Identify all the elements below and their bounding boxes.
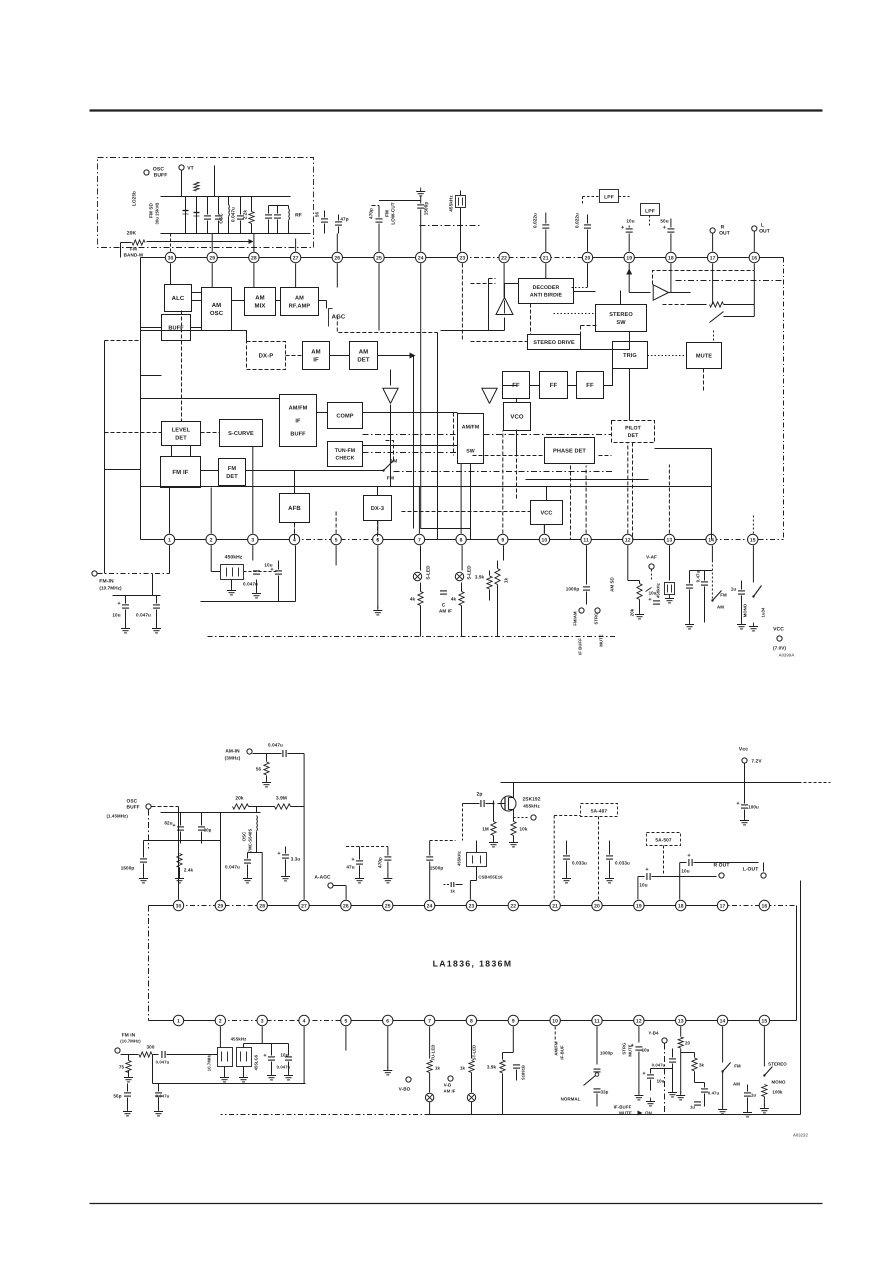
wire mesh h agc [337,316,437,333]
wire pin12 up [627,443,629,534]
svg-text:1500p: 1500p [430,866,444,871]
wire band-w [121,242,132,244]
svg-text:LPF: LPF [604,195,614,201]
wire mesh v4 [390,405,392,487]
wire phasedet left [471,455,543,457]
block PILOT DET [612,421,655,443]
pin 7 [414,534,424,544]
wire stereo sw dotted [554,313,596,315]
resistor 75 [126,1061,131,1073]
ceramic resonator 450kHz [669,546,671,581]
svg-text:17: 17 [710,255,716,261]
wire pin13 up [668,465,670,534]
wire trig down [629,369,631,421]
wire left bus to DXP [141,331,247,342]
svg-text:+: + [736,801,739,807]
svg-text:STEREO: STEREO [609,312,633,318]
wire sw to buff [384,441,394,461]
wire s-curve link [201,432,220,434]
wire pin6 stub [377,546,379,609]
svg-text:LO25b: LO25b [132,191,137,206]
wire osc rail2 [161,233,311,235]
svg-text:455kHz: 455kHz [231,1037,247,1042]
ground [256,590,258,594]
wire pin5 stub [345,1027,347,1051]
svg-text:7.2V: 7.2V [751,759,762,765]
svg-text:+: + [172,823,175,829]
svg-text:0.047u: 0.047u [225,865,240,870]
wire fm-in [98,573,170,575]
svg-text:1k: 1k [435,1066,441,1071]
wire pin10 up [543,525,545,534]
resistor 56 [264,762,269,775]
wire pin29 up [211,234,213,252]
svg-text:6: 6 [386,1018,389,1024]
block AM/FM SW [458,414,484,464]
svg-text:A03232: A03232 [793,1133,809,1138]
ground [672,1089,674,1093]
wire mesh v3 [437,333,439,540]
capacitor pair RF [268,206,270,214]
flip-flop FF1 [503,372,530,399]
svg-text:16: 16 [762,903,768,909]
svg-text:AFB: AFB [288,505,301,512]
wire pin3 up [252,447,254,534]
wire mute sw [713,331,715,343]
wire AMDET out [378,355,414,357]
wire pin21 dash [553,816,555,900]
wire pin11 up [585,466,587,534]
capacitor 56p [321,218,328,220]
svg-text:+: + [663,225,666,231]
svg-text:2p: 2p [476,792,482,798]
block AM RF AMP [281,288,319,316]
pin 12 [634,1015,644,1025]
svg-text:47p: 47p [340,217,348,222]
wire left col [104,341,106,574]
wire filters [206,1054,218,1056]
svg-text:24: 24 [427,903,433,909]
svg-text:450kHz: 450kHz [225,555,243,561]
svg-text:V-B: V-B [444,1083,452,1088]
wire fil out [262,1043,288,1045]
coil OSC [228,197,230,205]
svg-text:29: 29 [217,903,223,909]
svg-text:20K: 20K [127,231,137,237]
switch NORMAL [595,1073,599,1077]
ground [513,839,515,843]
wire coil bottom [248,852,263,854]
svg-text:8: 8 [460,537,463,543]
wire rail y812 [161,812,261,814]
svg-text:23: 23 [460,255,466,261]
wire stereo sw up [620,291,622,305]
pin 2 [215,1015,225,1025]
svg-text:25: 25 [385,903,391,909]
svg-text:11: 11 [594,1018,600,1024]
wire comp to buff [317,412,328,414]
wire mesh v amdet [390,370,392,386]
svg-text:2.2k: 2.2k [243,209,248,219]
svg-text:STRG: STRG [594,612,599,624]
wire v-af [651,570,653,581]
svg-text:IF: IF [313,357,319,364]
wire bottom bus dash [208,636,617,638]
amp triangle AM det [383,388,398,403]
svg-text:15: 15 [750,537,756,543]
svg-text:0.022u: 0.022u [533,213,538,228]
wire comp right ext [390,429,392,442]
wire pin19 to amp [628,264,630,293]
block AM/FM IF BUFF [280,395,317,447]
svg-text:10.7MHz: 10.7MHz [207,1054,212,1071]
pin 3 [248,534,258,544]
svg-text:DX-3: DX-3 [371,506,384,512]
svg-text:DET: DET [357,357,370,364]
wire stereo drive left [471,341,528,343]
svg-text:+: + [270,567,273,573]
potentiometer 20kB [627,546,629,581]
block VCO [504,403,531,431]
svg-text:FM: FM [385,210,390,217]
svg-text:4k: 4k [410,597,416,602]
ground [128,1074,130,1078]
svg-text:10k: 10k [520,827,528,832]
svg-text:IF BUFF: IF BUFF [578,638,583,655]
svg-text:1500p: 1500p [424,202,429,216]
wire phase det down [570,466,572,540]
svg-text:TU-LED: TU-LED [431,1045,436,1061]
svg-text:20k: 20k [235,796,244,802]
capacitor trim [207,197,209,215]
svg-text:7: 7 [428,1018,431,1024]
svg-text:0.047u: 0.047u [268,743,283,748]
pin 5 [331,534,341,544]
pin 24 [416,252,426,262]
wire AMMIX-RFAMP [276,300,281,302]
svg-text:455LG5: 455LG5 [254,1054,259,1070]
svg-text:ANTI BIRDIE: ANTI BIRDIE [530,293,563,299]
svg-text:+: + [631,1043,634,1049]
wire bus 479 [526,479,649,481]
capacitor 0.47u [711,546,713,561]
coil RF [288,206,290,209]
pin 14 [717,1015,727,1025]
pin 4 [299,1015,309,1025]
resistor 10k [511,822,516,836]
LED S-LED 2 [461,546,463,571]
terminal V-B AM IF [448,1076,453,1081]
svg-text:FM: FM [130,247,137,252]
svg-text:50u: 50u [660,219,668,224]
svg-text:FM/AM: FM/AM [573,611,578,626]
svg-text:R OUT: R OUT [713,863,729,869]
svg-text:+: + [645,867,648,873]
svg-text:AM/FM: AM/FM [462,424,480,430]
capacitor [513,1064,520,1066]
svg-text:IF-BUF: IF-BUF [560,1045,565,1060]
svg-text:470p: 470p [369,208,374,219]
svg-text:BUFF: BUFF [154,173,168,179]
svg-text:FM: FM [228,466,237,472]
svg-text:455kHz: 455kHz [457,851,462,866]
pin 6 [373,534,383,544]
svg-text:DET: DET [628,433,639,439]
wire trig-mute [648,355,687,357]
svg-text:26: 26 [343,903,349,909]
svg-text:S-CURVE: S-CURVE [228,431,254,437]
svg-text:5A-407: 5A-407 [591,809,608,815]
svg-text:L-OUT: L-OUT [743,867,759,873]
svg-text:(1.45MHz): (1.45MHz) [107,814,129,819]
svg-text:A-AGC: A-AGC [314,875,331,881]
wire pilotamp up [504,284,506,298]
svg-text:19: 19 [626,255,632,261]
svg-text:S-LED: S-LED [467,565,472,580]
wire pin27 to AM RF AMP [295,264,297,288]
svg-text:PHASE DET: PHASE DET [553,448,586,454]
pin 10 [539,534,549,544]
svg-text:AM: AM [295,296,304,302]
svg-text:AM/FM: AM/FM [554,1041,559,1056]
svg-text:6: 6 [376,537,379,543]
svg-text:AM: AM [359,349,369,356]
svg-text:13: 13 [667,537,673,543]
block TRIG [613,342,648,369]
ground [271,1072,273,1076]
terminal VT [179,165,184,170]
svg-text:1000p: 1000p [566,587,580,592]
svg-text:OSC: OSC [219,213,224,224]
ground [387,1067,389,1071]
wire DXP-AMIF [286,355,303,357]
svg-text:+: + [117,601,120,607]
svg-text:10u: 10u [639,883,647,888]
svg-text:+: + [687,853,690,859]
capacitor [686,584,693,586]
svg-text:MUTE: MUTE [599,634,604,646]
wire mesh v2 [413,356,415,529]
svg-text:100k: 100k [772,1090,783,1095]
wire 1500p [420,196,422,204]
svg-text:FF: FF [586,382,594,389]
svg-text:25: 25 [376,255,382,261]
svg-text:(3MHz): (3MHz) [225,756,241,761]
svg-text:10u: 10u [681,869,689,874]
svg-text:SW: SW [616,320,626,326]
pin 23 [457,252,467,262]
pin 19 [624,252,634,262]
varactor diode pair [185,197,187,234]
capacitor 0.047u [161,1051,163,1058]
pin 15 [759,1015,769,1025]
wire pin6 gnd [387,1027,389,1069]
svg-text:470p: 470p [378,857,383,868]
svg-text:V-BO: V-BO [399,1087,411,1092]
terminal L OUT [752,226,757,231]
wire h bus 1083 [153,1083,306,1085]
switch MONO [752,546,754,583]
svg-text:0.47u: 0.47u [708,1091,720,1096]
ground [493,839,495,843]
wire AMOSC-AMMIX [232,300,245,302]
pin 29 [207,252,217,262]
svg-text:450kHz: 450kHz [656,583,661,598]
svg-text:0.047u: 0.047u [243,582,258,587]
svg-text:1u: 1u [731,587,737,592]
resistor 1k pin9 [503,546,505,561]
pin 30 [165,252,175,262]
wire mesh h2 [141,486,712,488]
svg-text:4: 4 [303,1018,306,1024]
ground [609,875,611,879]
svg-text:AM IF: AM IF [439,609,452,614]
ground [744,817,746,821]
svg-text:455kHz: 455kHz [449,195,454,212]
wire vt down [181,171,183,197]
ground [224,1074,226,1078]
wire pin15 up [752,515,754,534]
svg-text:IF: IF [295,418,301,424]
svg-text:1k: 1k [504,578,509,584]
pin 4 [289,534,299,544]
resistor 20 [678,1037,683,1048]
wire drive-trig [581,342,630,350]
flip-flop FF2 [540,372,568,399]
svg-text:AM: AM [311,349,321,356]
wire top t-junction [379,200,421,202]
wire dx3 down [377,521,379,540]
svg-text:+: + [621,225,624,231]
svg-text:FM SD: FM SD [149,203,154,218]
block COMP [328,403,363,429]
svg-text:S-LED: S-LED [426,565,431,580]
ground [247,875,249,879]
wire mute bottom [703,369,705,393]
wire pin25 down [378,264,380,331]
svg-text:5: 5 [335,537,338,543]
amp triangle pilot [496,298,513,315]
block ALC [165,285,192,312]
resistor 3k [680,1027,682,1037]
svg-text:27: 27 [301,903,307,909]
wire vco-ff [503,385,517,387]
wire left col top [105,340,141,342]
svg-text:10u: 10u [112,613,120,618]
resistor feedback [710,302,724,307]
svg-text:AM: AM [255,295,265,302]
ground [722,1106,724,1110]
svg-text:1k: 1k [450,889,455,894]
wire ff chain2 [568,385,577,387]
ground [387,875,389,879]
svg-text:BUFF: BUFF [290,431,306,437]
svg-text:+: + [263,1053,266,1059]
svg-text:10u: 10u [642,1048,650,1053]
wire decoder down [530,304,532,335]
wire vcc down [543,525,545,534]
svg-text:LEVEL: LEVEL [172,428,191,434]
svg-text:OUT: OUT [719,231,730,237]
pin 30 [173,900,183,910]
svg-text:A0399A: A0399A [779,653,795,658]
wire level det left [105,432,162,434]
block AFB [280,494,310,523]
wire fmif-fmdet [201,470,219,472]
svg-text:(7.0V): (7.0V) [773,646,786,651]
wire mesh v5 [453,413,455,456]
pin 28 [249,252,259,262]
wire ALC-AMOSC [192,292,202,294]
capacitor 100u [741,804,748,806]
svg-text:1M: 1M [482,827,489,832]
svg-text:1: 1 [168,537,171,543]
svg-text:21: 21 [552,903,558,909]
svg-text:16: 16 [751,255,757,261]
svg-text:1u: 1u [751,1093,757,1098]
IC right border [796,906,798,1021]
terminal FM/AM IF BUFF [579,608,584,613]
IC LA1836 top border (top diagram) [141,257,463,259]
svg-text:3.3u: 3.3u [291,857,301,862]
amp triangle FM det [482,388,497,403]
svg-text:0.033u: 0.033u [572,861,587,866]
pin 16 [749,252,759,262]
svg-text:RF.AMP: RF.AMP [289,303,311,309]
pin 20 [582,252,592,262]
resistor VT small [194,182,199,191]
wire mesh h1 [141,398,280,400]
ground [156,625,158,629]
svg-text:CHECK: CHECK [336,456,355,462]
pin 17 [707,252,717,262]
svg-text:455kHz: 455kHz [523,804,540,809]
pin 8 [456,534,466,544]
wire RFAMP out [319,300,327,302]
IC bottom border [141,539,295,541]
wire pin28 to AM OSC [253,264,255,288]
wire afb down [294,523,296,540]
VCC rail [501,782,799,784]
svg-text:VCC: VCC [540,510,552,516]
pin 18 [666,252,676,262]
wire pin28 up [253,234,255,252]
svg-text:V-AF: V-AF [646,555,657,560]
svg-text:2: 2 [210,537,213,543]
svg-text:3.9k: 3.9k [487,1065,497,1070]
svg-text:FM: FM [720,593,727,598]
pin 22 [508,900,518,910]
svg-text:COMP: COMP [336,413,353,419]
wire comp dash 434 [363,434,456,436]
svg-text:+: + [351,857,354,863]
wire pin5 stub [335,546,337,566]
wire audio amp out [669,292,691,294]
svg-text:30: 30 [176,903,182,909]
svg-text:20: 20 [585,255,591,261]
wire pin9 up [502,431,504,534]
svg-text:0.022u: 0.022u [575,213,580,228]
block DECODER ANTI BIRDIE [519,279,574,304]
svg-text:0.047u: 0.047u [156,1060,170,1065]
svg-text:22: 22 [501,255,507,261]
svg-text:4k: 4k [451,597,457,602]
svg-text:ALC: ALC [172,295,185,302]
svg-text:FM-IN: FM-IN [99,579,114,585]
pin 8 [466,1015,476,1025]
svg-text:1u: 1u [690,1105,695,1110]
pin 13 [676,1015,686,1025]
